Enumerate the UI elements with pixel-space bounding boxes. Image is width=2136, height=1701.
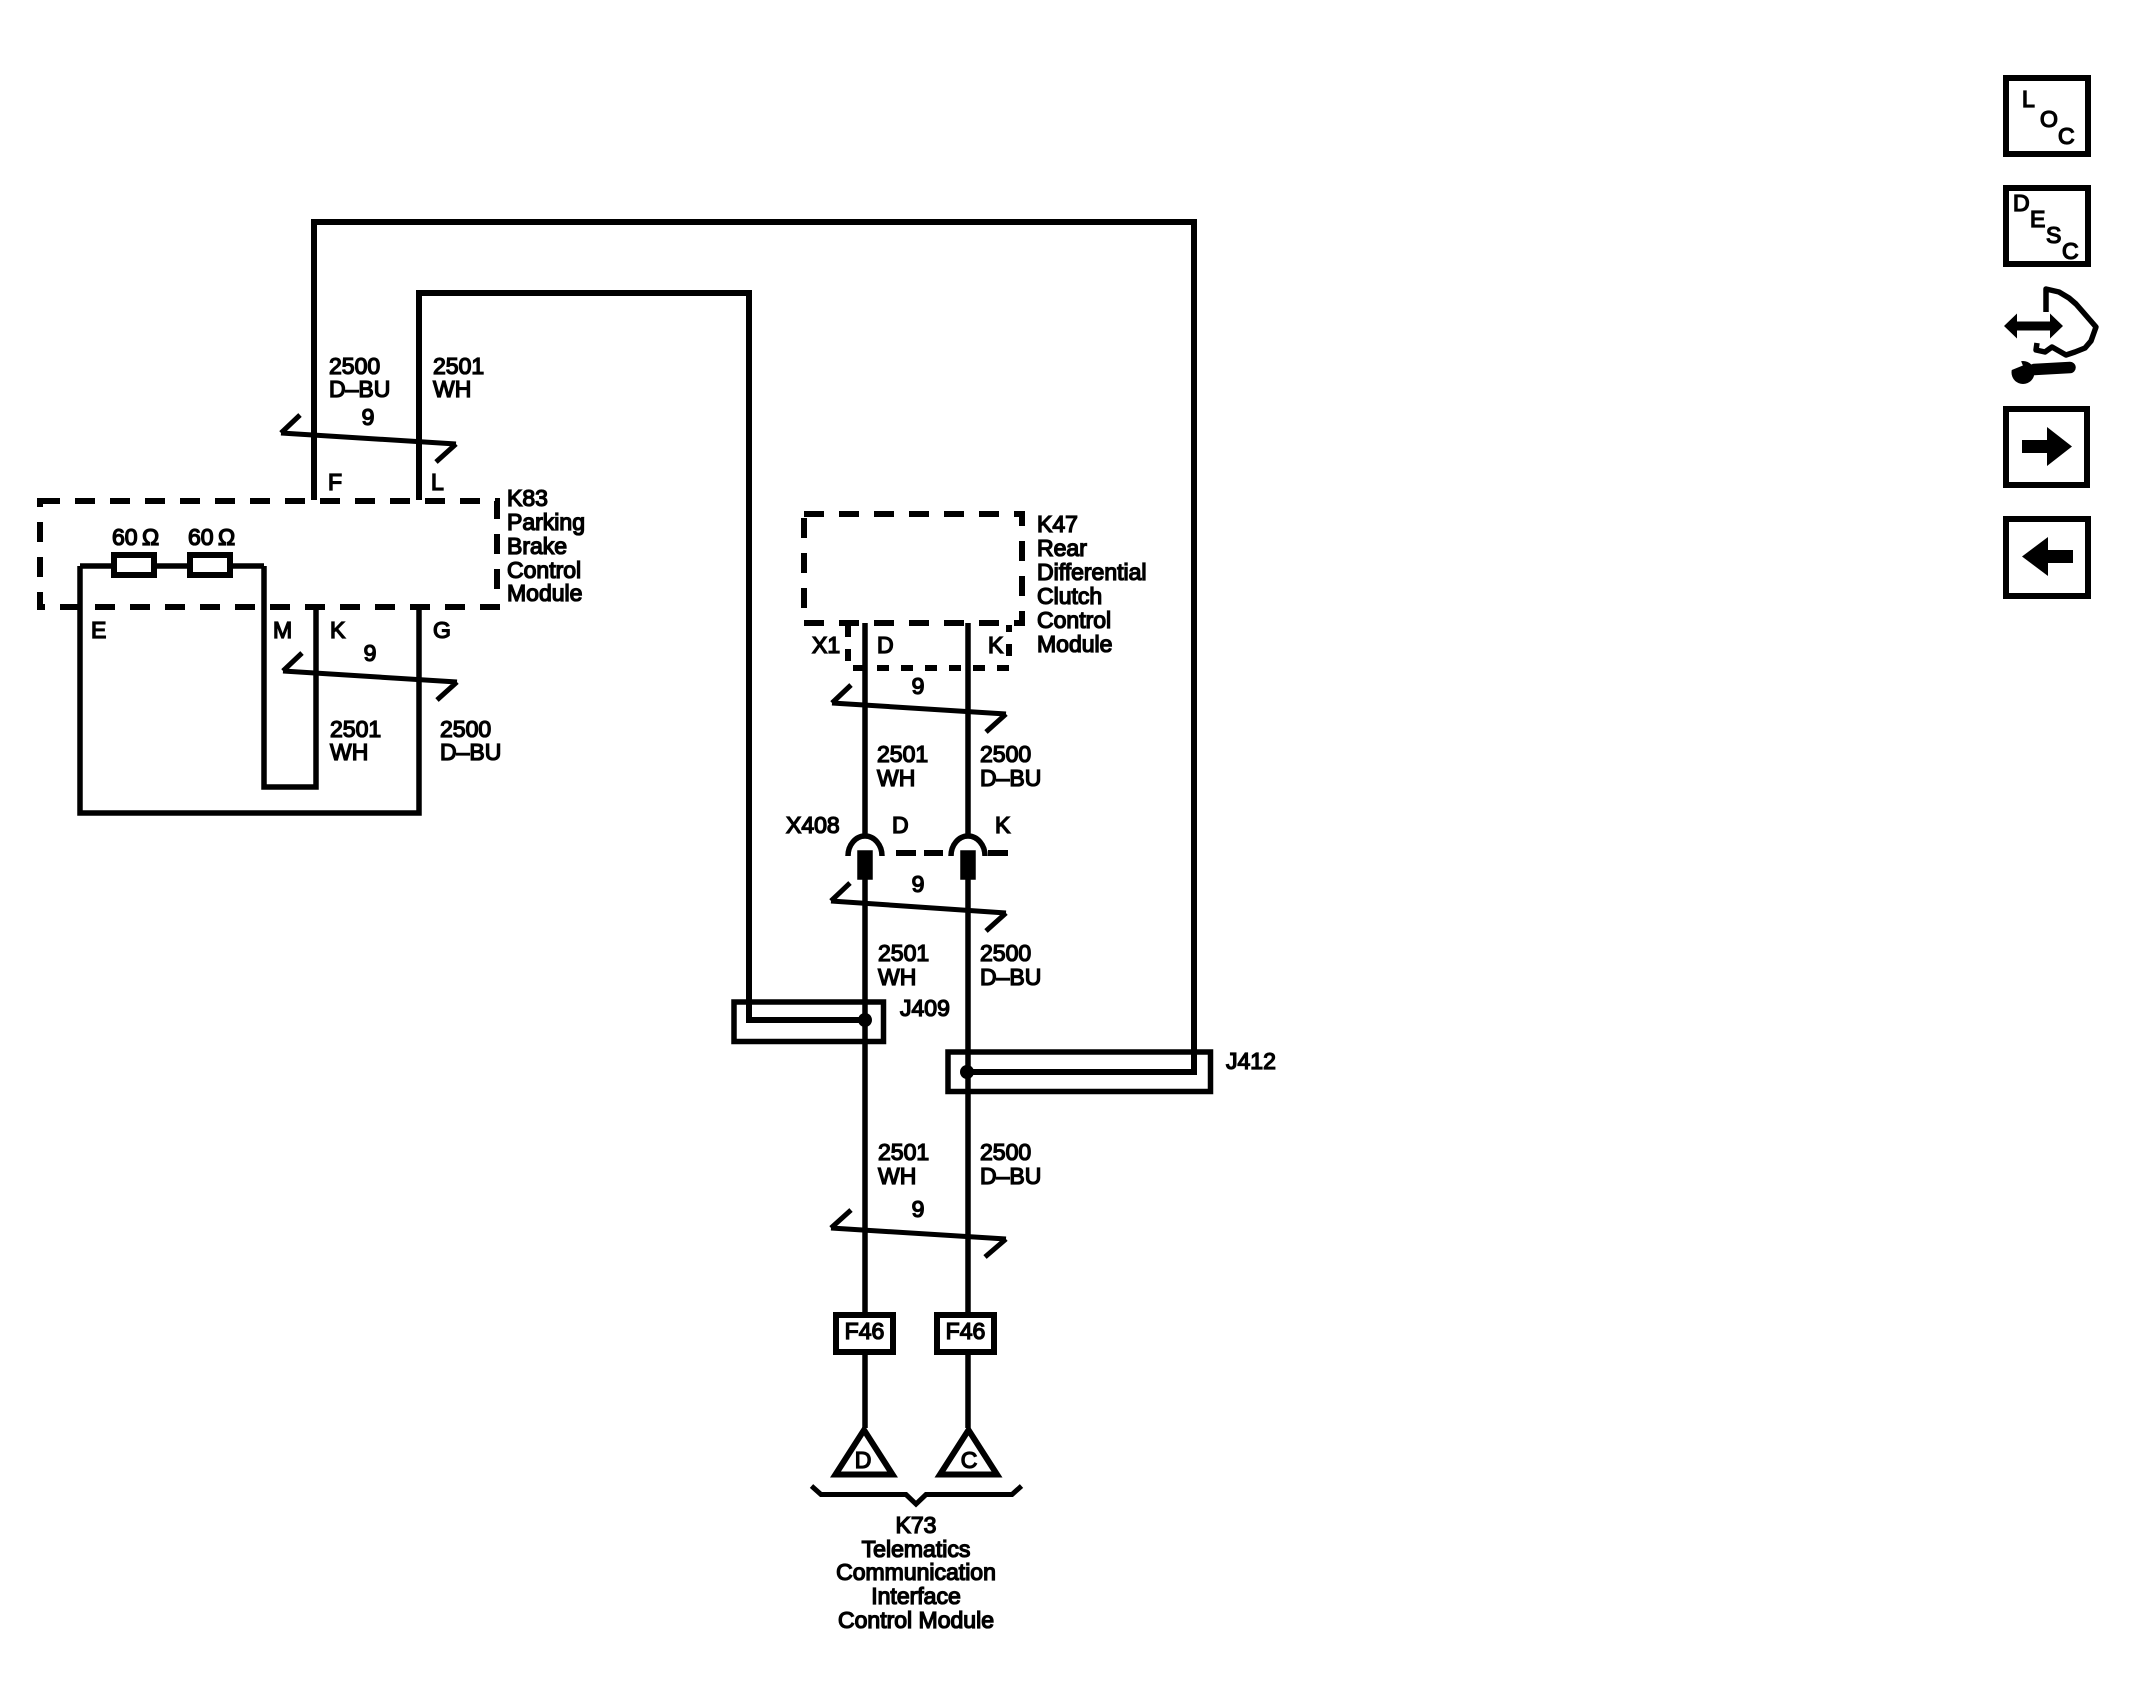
svg-text:D–BU: D–BU xyxy=(329,376,390,402)
svg-text:O: O xyxy=(2040,106,2058,132)
wire 2501 WH X408 to F46 xyxy=(862,877,868,1312)
wire F46 to triangle C xyxy=(965,1355,971,1428)
svg-text:WH: WH xyxy=(330,739,368,765)
wire inside J412 xyxy=(967,1069,1197,1075)
svg-text:Parking: Parking xyxy=(507,509,585,535)
svg-text:G: G xyxy=(433,617,451,643)
svg-text:D: D xyxy=(855,1447,872,1473)
svg-text:Control Module: Control Module xyxy=(838,1607,994,1633)
wire 2500 D-BU top loop: K83 pin F up, across, down to J412 xyxy=(314,222,1194,1072)
connector X408 arc D xyxy=(848,836,882,856)
icon schematic jump with wrench xyxy=(1999,289,2096,384)
wire 2501 WH from K47 pin D xyxy=(862,623,868,836)
svg-text:Module: Module xyxy=(1037,631,1112,657)
svg-text:F46: F46 xyxy=(845,1318,885,1344)
svg-text:K47: K47 xyxy=(1037,511,1078,537)
svg-text:2501: 2501 xyxy=(878,940,929,966)
wire resistor R2 to M branch xyxy=(233,563,264,569)
svg-text:9: 9 xyxy=(912,871,925,897)
icon DESC button xyxy=(2006,188,2088,264)
connector X408 pin K terminal xyxy=(963,853,973,877)
wire loop E down, bottom, up to G xyxy=(80,566,419,813)
svg-text:D: D xyxy=(2013,190,2030,216)
wire 2500 D-BU from K47 pin K xyxy=(965,623,971,836)
module K83 Parking Brake Control Module dashed box xyxy=(40,501,497,607)
svg-text:60: 60 xyxy=(112,524,138,550)
svg-text:X408: X408 xyxy=(786,812,840,838)
svg-text:L: L xyxy=(2022,86,2035,112)
brace for K73 xyxy=(812,1486,1022,1504)
svg-text:Ω: Ω xyxy=(218,524,235,550)
svg-text:9: 9 xyxy=(912,1196,925,1222)
svg-text:2500: 2500 xyxy=(980,741,1031,767)
connector triangle C xyxy=(940,1430,997,1475)
svg-text:WH: WH xyxy=(878,1163,916,1189)
svg-text:C: C xyxy=(2058,123,2075,149)
icon arrow left button xyxy=(2006,519,2088,596)
svg-text:WH: WH xyxy=(878,964,916,990)
svg-text:K: K xyxy=(330,617,346,643)
svg-text:S: S xyxy=(2046,222,2061,248)
wire internal: E stub to resistor R1 xyxy=(80,563,111,569)
svg-text:D–BU: D–BU xyxy=(440,739,501,765)
wire jumper M down, across, up to K xyxy=(264,566,316,787)
svg-text:K: K xyxy=(995,812,1011,838)
svg-text:E: E xyxy=(91,617,106,643)
twisted pair symbol 9 above F46 xyxy=(831,1210,1006,1257)
svg-text:D–BU: D–BU xyxy=(980,964,1041,990)
connector X1 dashed outline xyxy=(848,625,1009,668)
svg-text:2501: 2501 xyxy=(878,1139,929,1165)
connector triangle D xyxy=(836,1430,893,1475)
svg-text:2500: 2500 xyxy=(980,1139,1031,1165)
svg-text:WH: WH xyxy=(877,765,915,791)
svg-text:D: D xyxy=(877,632,894,658)
wire 2500 D-BU X408 to F46 xyxy=(965,877,971,1312)
twisted pair symbol 9 at K83 pins K/G xyxy=(283,653,457,700)
svg-text:2501: 2501 xyxy=(877,741,928,767)
svg-text:9: 9 xyxy=(362,404,375,430)
junction dot J412 xyxy=(960,1065,974,1079)
module K47 Rear Differential Clutch Control Module dashed box xyxy=(804,514,1022,623)
wire F46 to triangle D xyxy=(862,1355,868,1428)
svg-text:Differential: Differential xyxy=(1037,559,1147,585)
svg-text:D–BU: D–BU xyxy=(980,765,1041,791)
icon LOC button xyxy=(2006,78,2088,154)
svg-text:C: C xyxy=(2062,238,2079,264)
svg-text:60: 60 xyxy=(188,524,214,550)
twisted pair symbol 9 below X1 xyxy=(832,685,1006,732)
svg-text:Interface: Interface xyxy=(871,1583,961,1609)
twisted pair symbol 9 below X408 xyxy=(831,883,1006,931)
icon arrow right button xyxy=(2006,409,2087,485)
svg-text:D: D xyxy=(892,812,909,838)
resistor R2 60 ohm xyxy=(190,555,230,575)
svg-text:Clutch: Clutch xyxy=(1037,583,1102,609)
svg-text:Rear: Rear xyxy=(1037,535,1087,561)
svg-text:Ω: Ω xyxy=(142,524,159,550)
svg-text:K73: K73 xyxy=(896,1512,937,1538)
svg-text:L: L xyxy=(431,469,444,495)
svg-text:2500: 2500 xyxy=(980,940,1031,966)
svg-text:M: M xyxy=(273,617,292,643)
svg-text:J412: J412 xyxy=(1226,1048,1276,1074)
junction dot J409 xyxy=(858,1013,872,1027)
connector X408 dashed line xyxy=(896,850,1008,856)
svg-text:9: 9 xyxy=(912,673,925,699)
svg-text:Brake: Brake xyxy=(507,533,567,559)
wire between resistors xyxy=(157,563,187,569)
svg-text:X1: X1 xyxy=(812,632,840,658)
svg-text:9: 9 xyxy=(364,640,377,666)
connector X408 pin D terminal xyxy=(860,853,870,877)
svg-text:F46: F46 xyxy=(946,1318,986,1344)
svg-text:K: K xyxy=(988,632,1004,658)
svg-text:D–BU: D–BU xyxy=(980,1163,1041,1189)
fuse F46 right box xyxy=(937,1315,994,1352)
svg-text:J409: J409 xyxy=(900,995,950,1021)
connector X408 arc K xyxy=(951,836,985,856)
wire 2501 WH loop: K83 pin L up, across, down into J409 xyxy=(419,293,862,1020)
splice J412 box xyxy=(948,1052,1211,1092)
svg-text:Communication: Communication xyxy=(836,1559,996,1585)
twisted pair symbol 9 at K83 pins F/L xyxy=(281,415,456,462)
svg-text:F: F xyxy=(328,469,342,495)
svg-text:WH: WH xyxy=(433,376,471,402)
svg-text:Module: Module xyxy=(507,580,582,606)
splice J409 box xyxy=(734,1002,884,1042)
fuse F46 left box xyxy=(836,1315,893,1352)
svg-text:E: E xyxy=(2030,206,2045,232)
svg-text:Control: Control xyxy=(1037,607,1111,633)
svg-text:K83: K83 xyxy=(507,485,548,511)
resistor R1 60 ohm xyxy=(114,555,154,575)
svg-text:C: C xyxy=(961,1447,978,1473)
